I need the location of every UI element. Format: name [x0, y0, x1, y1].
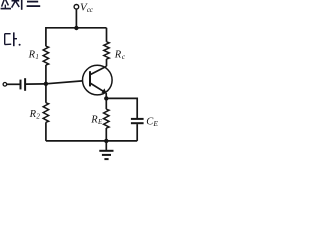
wire top rail [46, 28, 107, 46]
node Vcc rail junction [74, 26, 78, 30]
wire capacitor to base node [26, 83, 46, 85]
korean text: 다. [5, 32, 21, 46]
wire Rc to collector [106, 59, 108, 66]
svg-text:cc: cc [87, 5, 94, 14]
korean text top: 는 [27, 2, 41, 7]
resistor Rc [104, 42, 109, 59]
korean text top (cut off): 소 [1, 0, 11, 9]
svg-text:2: 2 [36, 112, 40, 120]
emitter arrowhead [102, 88, 107, 93]
Vcc terminal [74, 5, 79, 10]
svg-text:R: R [114, 50, 122, 61]
node ground junction [104, 139, 108, 143]
input terminal [3, 83, 7, 87]
capacitor CE bottom plate [131, 122, 144, 124]
transistor collector stroke [90, 66, 107, 75]
wire base lead [46, 81, 83, 84]
wire R1 to base node [45, 65, 47, 84]
svg-text:R: R [90, 115, 98, 126]
wire input to capacitor [7, 83, 20, 85]
svg-text:c: c [122, 52, 126, 61]
wire base node down to R2 [45, 84, 47, 103]
resistor R2 [43, 103, 48, 123]
korean text top: 지 [12, 0, 22, 10]
ground [99, 141, 113, 159]
resistor R1 [43, 46, 48, 65]
wire Vcc to rail [75, 9, 77, 28]
capacitor CE top plate [131, 118, 144, 120]
wire collector vertical to Rc [106, 28, 108, 42]
wire RE branch [105, 98, 107, 109]
wire emitter to node [105, 93, 107, 98]
transistor emitter stroke [90, 83, 105, 92]
node emitter junction [104, 96, 108, 100]
capacitor input coupling right plate [24, 78, 26, 91]
capacitor input coupling left plate [20, 80, 22, 90]
transistor base bar [89, 71, 91, 86]
svg-text:R: R [28, 50, 36, 61]
node base junction [44, 82, 48, 86]
svg-text:1: 1 [35, 53, 39, 61]
svg-text:E: E [152, 119, 158, 128]
wire R2 to bottom rail [45, 122, 47, 141]
svg-text:R: R [29, 109, 37, 120]
transistor Q1 circle [83, 65, 113, 95]
wire emitter node to CE branch [106, 98, 137, 118]
wire CE to bottom rail [136, 124, 138, 141]
wire bottom rail [46, 140, 137, 142]
wire RE to bottom rail [105, 128, 107, 141]
resistor RE [104, 109, 109, 128]
svg-text:E: E [97, 118, 103, 126]
